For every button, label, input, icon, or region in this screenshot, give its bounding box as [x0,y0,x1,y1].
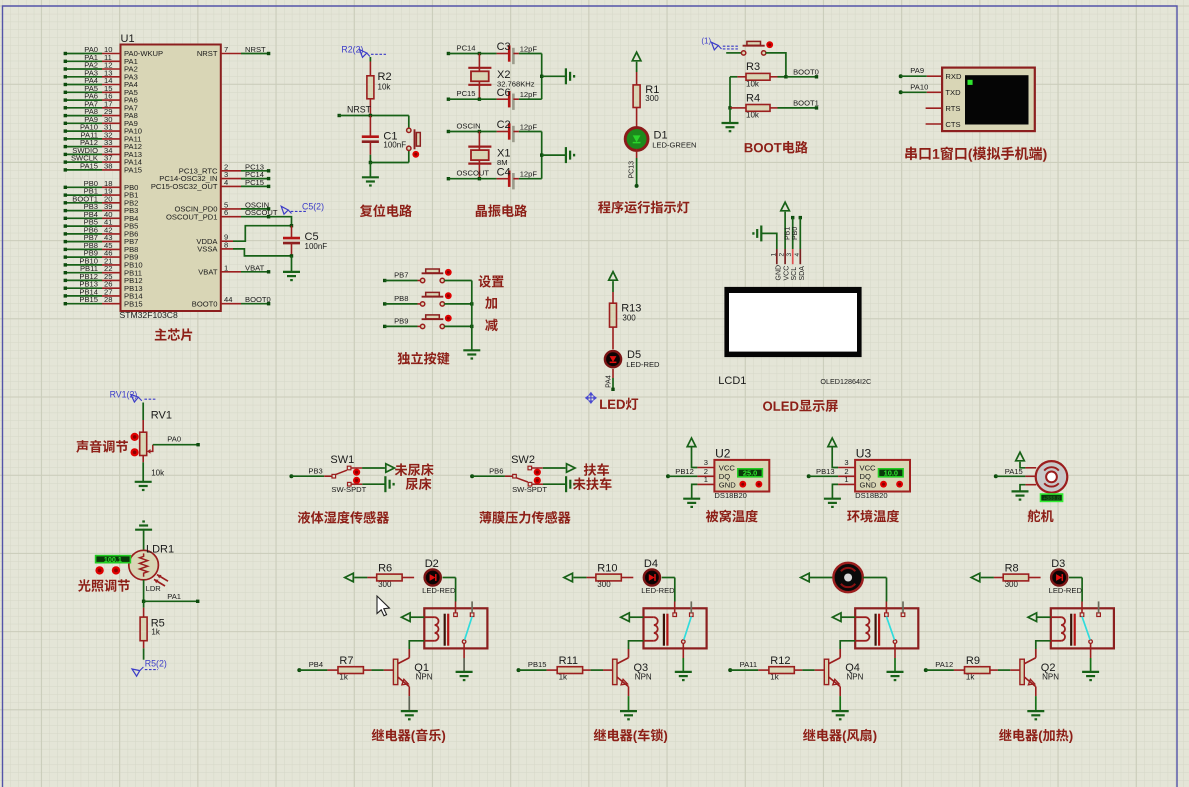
junction C5 top [290,224,293,227]
wire power-R1 [636,62,638,85]
svg-text:PB15: PB15 [124,299,143,308]
label 未扶车 [573,477,612,490]
svg-text:C5(2): C5(2) [302,201,324,211]
LED D4 [644,569,660,585]
label LED灯 [600,398,638,410]
power arrow R12 row [801,573,810,582]
power arrow D5 [609,272,618,281]
svg-text:PA15: PA15 [1005,467,1023,476]
svg-text:7: 7 [224,45,228,54]
svg-text:44: 44 [224,295,232,304]
relay core bars [1071,614,1075,646]
wire LDR-PA1 [143,580,145,601]
R5(2) annotation [132,659,167,677]
svg-text:GND: GND [719,480,736,489]
svg-text:OSCOUT: OSCOUT [457,169,490,178]
ground servo [1012,491,1029,499]
resistor R4 [730,105,817,112]
svg-text:R5(2): R5(2) [145,659,167,669]
Q3 labels [634,662,652,682]
LDR1 body [129,550,168,586]
label 继电器(车锁) [594,729,667,743]
wire D2-relay [443,578,456,602]
svg-text:NPN: NPN [1042,673,1059,682]
Q1 labels [414,662,432,682]
label 继电器(风扇) [803,729,876,743]
D4 labels [641,558,675,595]
R12 labels [770,655,790,682]
wire to button [370,116,408,163]
svg-text:10k: 10k [151,469,165,478]
junction BOOT0 [784,75,787,78]
terminal NRST [338,105,372,118]
terminal PC13 dot [635,184,639,188]
svg-text:OSCOUT_PD1: OSCOUT_PD1 [166,212,217,221]
wire C1 bottom [369,155,371,163]
R11 labels [559,655,578,682]
ground SW2 rot [566,476,574,492]
terminal PA15 [994,467,1036,478]
port B pins PB0-PB15 [64,179,143,308]
junction keys 1 [470,302,473,305]
relay R6 box [424,608,487,648]
SW1 part name [331,485,366,494]
wire arrow-coil [841,616,855,618]
wire gnd-pin1 [761,233,777,249]
capacitor C2 [479,119,541,142]
switch SW1 pivot [332,474,336,478]
junction R4 [728,106,731,109]
svg-text:R11: R11 [559,655,578,667]
svg-text:PA9: PA9 [910,66,924,75]
svg-text:NRST: NRST [197,49,218,58]
svg-text:DS18B20: DS18B20 [855,491,888,500]
svg-text:100nF: 100nF [383,141,406,150]
label 液体湿度传感器 [298,511,389,524]
move cursor icon [586,393,596,403]
wire SW1 top [351,467,385,469]
wire PB9 bus [444,325,472,327]
svg-text:LED-RED: LED-RED [641,586,675,595]
svg-text:3: 3 [704,458,708,467]
net label PB1 [785,227,792,240]
LED D2 [425,569,441,585]
RV1 labels [151,409,172,477]
label 被窝温度 [706,510,758,523]
pin PC13 (2) [179,162,271,175]
pin VSSA (8) [197,240,291,256]
OLED model label [820,377,871,386]
svg-text:NPN: NPN [635,673,652,682]
svg-text:38: 38 [104,161,112,170]
svg-text:12pF: 12pF [520,90,538,99]
wire D5-PA4 [612,369,614,389]
wire gnd-LDR [143,530,145,551]
U3 body [855,460,910,492]
wire contact-ground [894,643,896,672]
serial pin labels [945,72,962,129]
svg-text:PB15: PB15 [79,295,98,304]
relay R10 box [644,608,707,648]
net label PC13 [628,161,635,179]
ground X1 [566,147,574,163]
pin numbers U3 [844,458,848,484]
D1 labels [652,130,696,150]
power arrow SW1 [386,464,395,473]
svg-text:DS18B20: DS18B20 [714,491,747,500]
pin BOOT0 (44) [192,295,271,308]
svg-text:PA10: PA10 [910,82,928,91]
relay contact [1089,640,1093,644]
ground OLED [753,226,761,242]
svg-text:VCC: VCC [784,266,791,281]
U1 designator [121,33,135,45]
power arrow R10 row [564,573,573,582]
wire emitter-ground [839,687,841,712]
power arrow OLED [781,202,790,211]
terminal BOOT0 [786,67,819,78]
coil power arrow [1028,613,1037,622]
label 继电器(音乐) [372,729,445,743]
svg-text:PB9: PB9 [394,316,408,325]
label 减 [485,319,498,332]
relay contact [462,640,466,644]
svg-text:1: 1 [770,253,777,257]
pin3 SCL stub [792,249,794,264]
relay pin squares [673,613,693,617]
BOOT button [741,41,773,55]
ground BOOT [722,123,739,131]
svg-text:PB15: PB15 [528,660,547,669]
junction PA1 [142,600,145,603]
resistor R1 [633,85,640,108]
label 光照调节 [78,579,130,592]
svg-text:12pF: 12pF [520,122,538,131]
label 尿床 [406,477,432,490]
capacitor C6 [479,87,541,110]
R1 lead [636,108,638,130]
svg-text:VBAT: VBAT [198,267,218,276]
svg-text:PA1: PA1 [167,592,181,601]
svg-text:RTS: RTS [945,104,960,113]
relay ground [675,672,692,680]
svg-text:12pF: 12pF [520,44,538,53]
svg-text:PC14: PC14 [457,43,476,52]
label 程序运行指示灯 [598,201,689,214]
wire OSCOUT to C5 [269,217,292,226]
label 薄膜压力传感器 [479,511,570,524]
D3 labels [1049,558,1083,595]
terminal BOOT1 [793,98,819,109]
R6 labels [378,563,392,590]
net label PA4 [605,375,612,388]
wire pwr-servo [1020,462,1036,468]
svg-text:3: 3 [786,253,793,257]
terminal PB12 [666,467,714,478]
svg-text:PC15: PC15 [245,178,264,187]
svg-text:D5: D5 [627,349,641,361]
terminal OSCIN [447,121,481,133]
wire SW1 bottom [351,483,385,485]
svg-text:TXD: TXD [945,88,961,97]
relay core bars [876,614,880,646]
R13 lead [612,327,614,349]
junction X1 bus [540,153,543,156]
terminal PA4 [611,388,614,391]
svg-text:RXD: RXD [945,72,962,81]
svg-text:300: 300 [622,314,636,323]
svg-text:LED-GREEN: LED-GREEN [652,140,696,149]
U3 pin names [860,463,877,489]
U2 pin names [719,463,736,489]
svg-text:RV1(2): RV1(2) [110,390,138,400]
relay core bars [445,614,449,646]
R4 labels [746,93,760,120]
servo display [1041,494,1063,502]
label 加 [485,297,497,309]
bus X2 [541,54,543,100]
wire to BOOT button [726,52,742,54]
ground C5 [283,272,300,280]
svg-text:STM32F103C8: STM32F103C8 [120,310,178,320]
C5(2) annotation [281,201,324,214]
svg-text:3: 3 [844,458,848,467]
svg-text:8: 8 [224,240,228,249]
relay pin squares [1080,613,1100,617]
svg-text:1k: 1k [151,627,160,636]
wire pwr-VCC U3 [832,448,855,468]
svg-text:SW2: SW2 [511,454,535,466]
svg-text:10k: 10k [378,83,392,92]
resistor R10 [573,574,633,581]
C1 labels [383,130,406,149]
ground LDR top [135,522,152,530]
terminal PB7 [383,271,421,283]
terminal PA11 [728,660,769,672]
wire arrow-coil [410,616,424,618]
svg-text:D2: D2 [425,558,439,570]
svg-text:PB3: PB3 [308,466,322,475]
svg-text:SW1: SW1 [330,454,354,466]
R2 labels [378,71,392,92]
wire arrow-coil [629,616,643,618]
SW2 designator [511,454,535,466]
wire motor-relay [863,578,887,602]
junction C5 bottom [290,254,293,257]
svg-text:NRST: NRST [245,45,266,54]
wire coil-collector [409,641,424,649]
relay contact [682,640,686,644]
junction OSCIN [478,130,481,133]
relay arm [684,617,692,640]
LDR buttons [95,566,120,574]
ground U3 [824,499,841,507]
OLED pin numbers [770,253,801,257]
net label PB0 [792,227,799,240]
wire D4-relay [662,578,675,602]
U2 designator [715,447,731,461]
serial window body [942,68,1035,132]
U3 part name [855,491,888,500]
capacitor C1 [362,116,379,155]
svg-text:R7: R7 [339,655,353,667]
LED D5 [605,351,621,367]
wire emitter-ground [1035,687,1037,712]
terminal PB6 [470,466,512,478]
relay pin2 stub [471,601,473,613]
terminal PB8 [383,294,421,306]
pin VBAT (1) [198,263,270,276]
relay arm [886,617,894,640]
LED D3 [1051,569,1067,585]
relay pin1 lead [674,602,676,613]
wire emitter-ground [408,687,410,712]
svg-text:SW-SPDT: SW-SPDT [331,485,366,494]
Q2 labels [1041,662,1059,682]
resistor R11 [557,667,612,674]
svg-text:25.0: 25.0 [743,469,757,478]
svg-text:PB8: PB8 [394,294,408,303]
wire GND U2 [692,484,715,498]
svg-text:PB6: PB6 [489,466,503,475]
label 未尿床 [395,463,434,476]
RV1 buttons [131,433,139,457]
pin PC14 (3) [159,170,270,183]
ground U2 [683,499,700,507]
resistor R12 [769,667,824,674]
wire arrow-motor [809,577,833,579]
U2 buttons [739,481,762,488]
svg-text:LED-RED: LED-RED [626,360,660,369]
svg-text:U3: U3 [856,447,872,461]
relay pin2 stub [1098,601,1100,613]
svg-text:VCC: VCC [860,463,877,472]
svg-text:PB7: PB7 [394,271,408,280]
svg-text:PB4: PB4 [309,660,323,669]
RV1 lead bottom [142,456,144,482]
resistor R13 [610,303,617,327]
SW2 part name [512,485,547,494]
switch SW1 arm [335,470,347,475]
svg-text:28: 28 [104,295,112,304]
svg-text:SW-SPDT: SW-SPDT [512,485,547,494]
terminal PB3 [289,466,331,478]
svg-text:12pF: 12pF [520,170,538,179]
power arrow R6 row [345,573,354,582]
relay pin2 stub [690,601,692,613]
wire R2 top [369,57,371,76]
junction PC15 [478,98,481,101]
R7 labels [339,655,353,682]
junction keys 2 [470,325,473,328]
junction C1 bottom [369,161,372,164]
power arrow servo [1016,452,1025,461]
capacitor C5 [283,226,300,256]
svg-text:GND: GND [860,480,877,489]
label 独立按键 [398,352,450,365]
wire X2 ground [542,75,566,77]
wire to ground reset [369,163,371,178]
label 串口1窗口（模拟手机端） [905,147,1046,162]
svg-text:PA4: PA4 [605,375,612,388]
svg-text:U1: U1 [121,33,135,45]
svg-text:+888.8: +888.8 [1043,496,1060,502]
LDR value box [96,555,131,564]
svg-text:RV1: RV1 [151,409,172,421]
svg-text:PA11: PA11 [740,660,757,669]
ground reset [362,177,379,185]
wire PB8 bus [444,303,472,305]
terminal PB0 [799,216,802,249]
LCD1 label [718,375,746,387]
wire RV1 top [142,403,144,433]
wire coil-collector [840,641,855,649]
capacitor C4 [479,166,541,189]
relay arm [1082,617,1090,640]
RV1(2) annotation [110,390,157,403]
relay coil [1051,617,1065,641]
wire contact-ground [463,643,465,672]
terminal PC14 [447,43,480,55]
LDR1 labels [146,544,175,594]
coil power arrow [402,613,411,622]
svg-text:D3: D3 [1051,558,1065,570]
R2(2) annotation [341,45,386,58]
svg-text:4: 4 [794,253,801,257]
pin OSCOUT (6) [166,208,278,221]
relay ground [456,672,473,680]
relay core bars [664,614,668,646]
svg-text:R9: R9 [966,655,980,667]
relay pin squares [885,613,905,617]
OLED pin names [775,265,806,281]
wire coil-collector [1036,641,1051,649]
R10 labels [597,563,617,590]
relay pin2 stub [902,601,904,613]
U3 designator [856,447,872,461]
pin RTS stub [926,107,943,109]
terminal PA9 [899,66,942,78]
label OLED显示屏 [763,400,838,412]
Q4 labels [845,662,863,682]
terminal PB13 [807,467,855,478]
port A pins PA0-PA15 [64,45,164,175]
svg-text:R12: R12 [770,655,790,667]
LED D1 [625,128,648,151]
relay pin1 lead [1081,602,1083,613]
wire coil-collector [629,641,644,649]
R8 labels [1005,563,1019,590]
label BOOT电路 [745,141,808,154]
resistor R8 [981,574,1041,581]
svg-text:C4: C4 [497,166,511,178]
svg-text:CTS: CTS [945,120,960,129]
transistor Q4 [824,649,840,687]
SW1 designator [330,454,354,466]
svg-text:PA0: PA0 [167,435,181,444]
svg-text:2: 2 [779,253,786,257]
wire arrow-coil [1037,616,1051,618]
svg-text:PB13: PB13 [816,467,835,476]
relay coil [855,617,869,641]
svg-text:C6: C6 [497,87,511,99]
wire contact-ground [1090,643,1092,672]
U2 body [714,460,769,492]
label 环境温度 [847,510,899,523]
relay arm [465,617,473,640]
svg-text:R8: R8 [1005,563,1019,575]
label 舵机 [1028,509,1054,522]
